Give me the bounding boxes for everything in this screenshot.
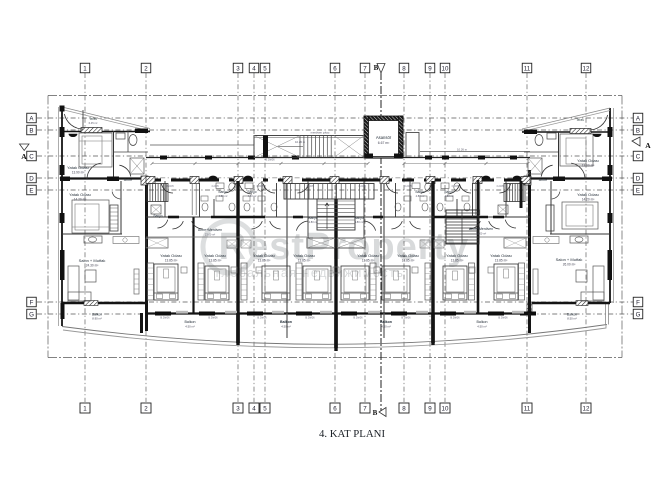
svg-text:3.2405: 3.2405 (404, 185, 412, 188)
svg-text:B.Dk/06: B.Dk/06 (353, 316, 363, 320)
svg-text:Salon + Mutfak: Salon + Mutfak (79, 258, 106, 263)
svg-text:G: G (29, 311, 34, 318)
svg-text:Banyo: Banyo (444, 190, 453, 194)
svg-text:8.90 m²: 8.90 m² (92, 317, 102, 321)
svg-text:11: 11 (524, 65, 531, 72)
svg-text:Salon + Mutfak: Salon + Mutfak (556, 257, 583, 262)
svg-text:Yatak Odası: Yatak Odası (446, 253, 468, 258)
svg-text:4: 4 (252, 65, 256, 72)
svg-text:8.50 m²: 8.50 m² (567, 317, 577, 321)
svg-text:Teras: Teras (576, 118, 584, 122)
svg-text:10: 10 (442, 65, 449, 72)
svg-text:23.00 m²: 23.00 m² (205, 233, 215, 237)
svg-text:G: G (636, 311, 641, 318)
svg-text:5: 5 (263, 405, 267, 412)
svg-text:B.Dk/06: B.Dk/06 (208, 316, 218, 320)
svg-text:9: 9 (428, 65, 432, 72)
svg-text:E: E (636, 187, 640, 194)
svg-text:1: 1 (83, 65, 87, 72)
svg-text:Balkon: Balkon (380, 320, 392, 324)
svg-text:D: D (636, 175, 641, 182)
svg-text:8: 8 (402, 65, 406, 72)
svg-text:3.2405: 3.2405 (451, 185, 459, 188)
svg-text:Banyo: Banyo (354, 216, 363, 220)
svg-text:6: 6 (333, 405, 337, 412)
svg-text:Yatak Odası: Yatak Odası (253, 253, 275, 258)
svg-text:B: B (373, 409, 378, 417)
svg-text:Antre: Antre (124, 178, 133, 182)
svg-text:24.30 m²: 24.30 m² (86, 264, 99, 268)
svg-text:3.2405: 3.2405 (256, 185, 264, 188)
svg-text:B: B (636, 127, 640, 134)
svg-text:Yatak Odası: Yatak Odası (357, 253, 379, 258)
svg-text:Yatak Odası: Yatak Odası (490, 253, 512, 258)
svg-text:10.26 m: 10.26 m (295, 140, 306, 144)
svg-text:merdiven çıkışı: merdiven çıkışı (311, 131, 330, 135)
svg-text:3: 3 (236, 405, 240, 412)
svg-text:Banyo: Banyo (247, 190, 256, 194)
svg-text:6.67 m²: 6.67 m² (378, 141, 390, 145)
svg-text:13.85 m²: 13.85 m² (362, 259, 375, 263)
svg-text:Yatak Odası: Yatak Odası (67, 165, 89, 170)
svg-text:12: 12 (583, 405, 590, 412)
svg-text:Yatak Odası: Yatak Odası (204, 253, 226, 258)
svg-text:B.Dk/06: B.Dk/06 (160, 316, 170, 320)
svg-text:B.Dk/06: B.Dk/06 (265, 158, 275, 162)
svg-text:Banyo: Banyo (153, 214, 162, 218)
svg-text:2: 2 (144, 405, 148, 412)
svg-text:10.26 m: 10.26 m (457, 148, 468, 152)
svg-text:4.80 m²: 4.80 m² (445, 194, 454, 198)
svg-text:A: A (21, 152, 27, 161)
svg-text:3.2405: 3.2405 (166, 185, 174, 188)
svg-text:F: F (636, 299, 640, 306)
svg-text:9: 9 (428, 405, 432, 412)
svg-text:11: 11 (524, 405, 531, 412)
svg-text:Balkon: Balkon (477, 320, 488, 324)
svg-text:4.80 m²: 4.80 m² (219, 194, 228, 198)
svg-text:13.85 m²: 13.85 m² (165, 259, 178, 263)
svg-text:12: 12 (583, 65, 590, 72)
svg-text:Banyo: Banyo (218, 190, 227, 194)
svg-text:B.Dk/06: B.Dk/06 (498, 316, 508, 320)
svg-text:5: 5 (263, 65, 267, 72)
svg-text:B.Dk/06: B.Dk/06 (257, 316, 267, 320)
svg-text:23.00 m²: 23.00 m² (476, 232, 486, 236)
svg-text:8: 8 (402, 405, 406, 412)
svg-text:13.85 m²: 13.85 m² (451, 259, 464, 263)
svg-text:B.Dk/06: B.Dk/06 (450, 316, 460, 320)
svg-text:Antre+Merdiven: Antre+Merdiven (469, 227, 493, 231)
svg-text:14.20 m²: 14.20 m² (74, 198, 87, 202)
svg-text:10: 10 (442, 405, 449, 412)
svg-text:7: 7 (363, 65, 367, 72)
svg-text:7: 7 (363, 405, 367, 412)
svg-text:3.2405: 3.2405 (496, 185, 504, 188)
svg-text:Yatak Odası: Yatak Odası (293, 253, 315, 258)
svg-text:2: 2 (144, 65, 148, 72)
svg-text:13.85 m²: 13.85 m² (402, 259, 415, 263)
svg-text:14.20 m²: 14.20 m² (582, 198, 595, 202)
svg-text:6.45 m²: 6.45 m² (89, 121, 98, 125)
svg-text:4: 4 (252, 405, 256, 412)
svg-text:D: D (29, 175, 34, 182)
svg-text:1: 1 (83, 405, 87, 412)
svg-text:6: 6 (333, 65, 337, 72)
svg-text:B.Dk/06: B.Dk/06 (401, 316, 411, 320)
svg-text:3: 3 (236, 65, 240, 72)
svg-text:4.50 m²: 4.50 m² (477, 325, 487, 329)
svg-text:Banyo: Banyo (415, 190, 424, 194)
svg-text:4.80 m²: 4.80 m² (416, 194, 425, 198)
svg-text:Antre+Merdiven: Antre+Merdiven (198, 228, 222, 232)
svg-text:E: E (29, 187, 33, 194)
svg-text:4. KAT PLANI: 4. KAT PLANI (319, 428, 385, 440)
svg-text:B.Dk/06: B.Dk/06 (305, 316, 315, 320)
svg-text:Balkon: Balkon (185, 320, 196, 324)
svg-text:3.2405: 3.2405 (211, 185, 219, 188)
svg-text:13.85 m²: 13.85 m² (495, 259, 508, 263)
svg-text:13.85 m²: 13.85 m² (258, 259, 271, 263)
svg-text:Yatak Odası: Yatak Odası (69, 192, 91, 197)
svg-text:13.85 m²: 13.85 m² (209, 259, 222, 263)
svg-text:13.00 m²: 13.00 m² (582, 164, 595, 168)
svg-text:Balkon: Balkon (280, 320, 292, 324)
svg-text:C: C (636, 153, 641, 160)
svg-text:C: C (29, 153, 34, 160)
svg-text:Asansör: Asansör (376, 135, 392, 140)
svg-text:4.80 m²: 4.80 m² (309, 220, 318, 224)
svg-text:Antre: Antre (539, 178, 548, 182)
svg-text:3.2405: 3.2405 (306, 185, 314, 188)
svg-text:Yatak Odası: Yatak Odası (160, 253, 182, 258)
svg-text:Yatak Odası: Yatak Odası (397, 253, 419, 258)
svg-text:13.90 m²: 13.90 m² (72, 171, 85, 175)
svg-text:Banyo: Banyo (308, 216, 317, 220)
svg-text:Teras: Teras (89, 117, 97, 121)
svg-text:4.80 m²: 4.80 m² (248, 194, 257, 198)
svg-text:B: B (29, 127, 33, 134)
svg-text:13.85 m²: 13.85 m² (298, 259, 311, 263)
svg-text:4.50 m²: 4.50 m² (381, 325, 391, 329)
svg-text:4.80 m²: 4.80 m² (355, 220, 364, 224)
svg-text:F: F (30, 299, 34, 306)
svg-text:4.50 m²: 4.50 m² (281, 325, 291, 329)
svg-text:26.00 m²: 26.00 m² (563, 263, 576, 267)
svg-text:3.2405: 3.2405 (358, 185, 366, 188)
svg-text:Yatak Odası: Yatak Odası (577, 158, 599, 163)
svg-text:4.50 m²: 4.50 m² (185, 325, 195, 329)
svg-text:Yatak Odası: Yatak Odası (577, 192, 599, 197)
svg-text:A: A (645, 141, 651, 150)
